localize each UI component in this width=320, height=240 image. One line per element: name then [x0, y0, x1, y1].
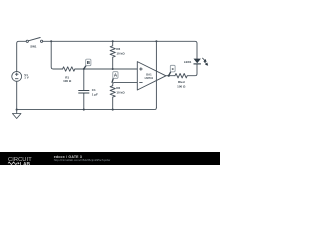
- svg-text:100 Ω: 100 Ω: [177, 85, 186, 89]
- LED LED1: [184, 59, 201, 64]
- wire op-amp power rail vertical: [155, 41, 157, 107]
- ground: [12, 109, 21, 119]
- svg-text:1 µF: 1 µF: [92, 92, 98, 96]
- svg-text:10 kΩ: 10 kΩ: [116, 90, 125, 94]
- svg-text:Rled: Rled: [178, 80, 185, 84]
- svg-text:B: B: [87, 60, 90, 65]
- node B: [84, 59, 91, 69]
- svg-text:SW1: SW1: [30, 45, 37, 49]
- svg-text:http://circuitlab.com/c/622t5c: http://circuitlab.com/c/622t5cjmk95e7qx2…: [54, 158, 111, 162]
- LED arrows: [202, 58, 207, 65]
- svg-text:R2: R2: [116, 86, 120, 90]
- node junction output: [168, 75, 170, 77]
- node junction top rail: [50, 40, 52, 42]
- wire V1 bottom to ground rail: [16, 81, 18, 109]
- node A: [112, 72, 118, 83]
- svg-text:OA1: OA1: [146, 72, 152, 76]
- wire B rail to op-amp + input: [75, 68, 137, 70]
- node junction B rail: [83, 68, 85, 70]
- resistor R3: [110, 41, 125, 69]
- op-amp OA1 LM741: [137, 62, 166, 90]
- node c: [169, 65, 175, 75]
- svg-text:10 kΩ: 10 kΩ: [116, 52, 125, 56]
- svg-text:100 Ω: 100 Ω: [63, 79, 72, 83]
- node junction bottom rail: [83, 109, 85, 111]
- wire top-left corner and left rail: [17, 41, 26, 71]
- resistor R1: [63, 67, 75, 83]
- wire minus input rail: [113, 82, 138, 85]
- wire switch junction drop to R1: [51, 41, 62, 69]
- svg-text:1 V: 1 V: [24, 76, 28, 80]
- voltage source V1: [12, 72, 29, 82]
- svg-text:LAB: LAB: [20, 162, 31, 165]
- resistor Rled: [175, 64, 197, 89]
- svg-text:R3: R3: [116, 47, 120, 51]
- wire top rail: [43, 41, 197, 58]
- svg-text:LED1: LED1: [184, 60, 192, 64]
- footer bar: [0, 152, 220, 165]
- svg-text:LM741: LM741: [145, 76, 154, 80]
- switch SW1: [26, 38, 43, 49]
- resistor R2: [110, 86, 125, 110]
- capacitor C1: [78, 69, 98, 110]
- svg-text:C1: C1: [92, 88, 96, 92]
- wire bottom rail: [17, 108, 157, 110]
- wire op-amp output: [166, 75, 175, 77]
